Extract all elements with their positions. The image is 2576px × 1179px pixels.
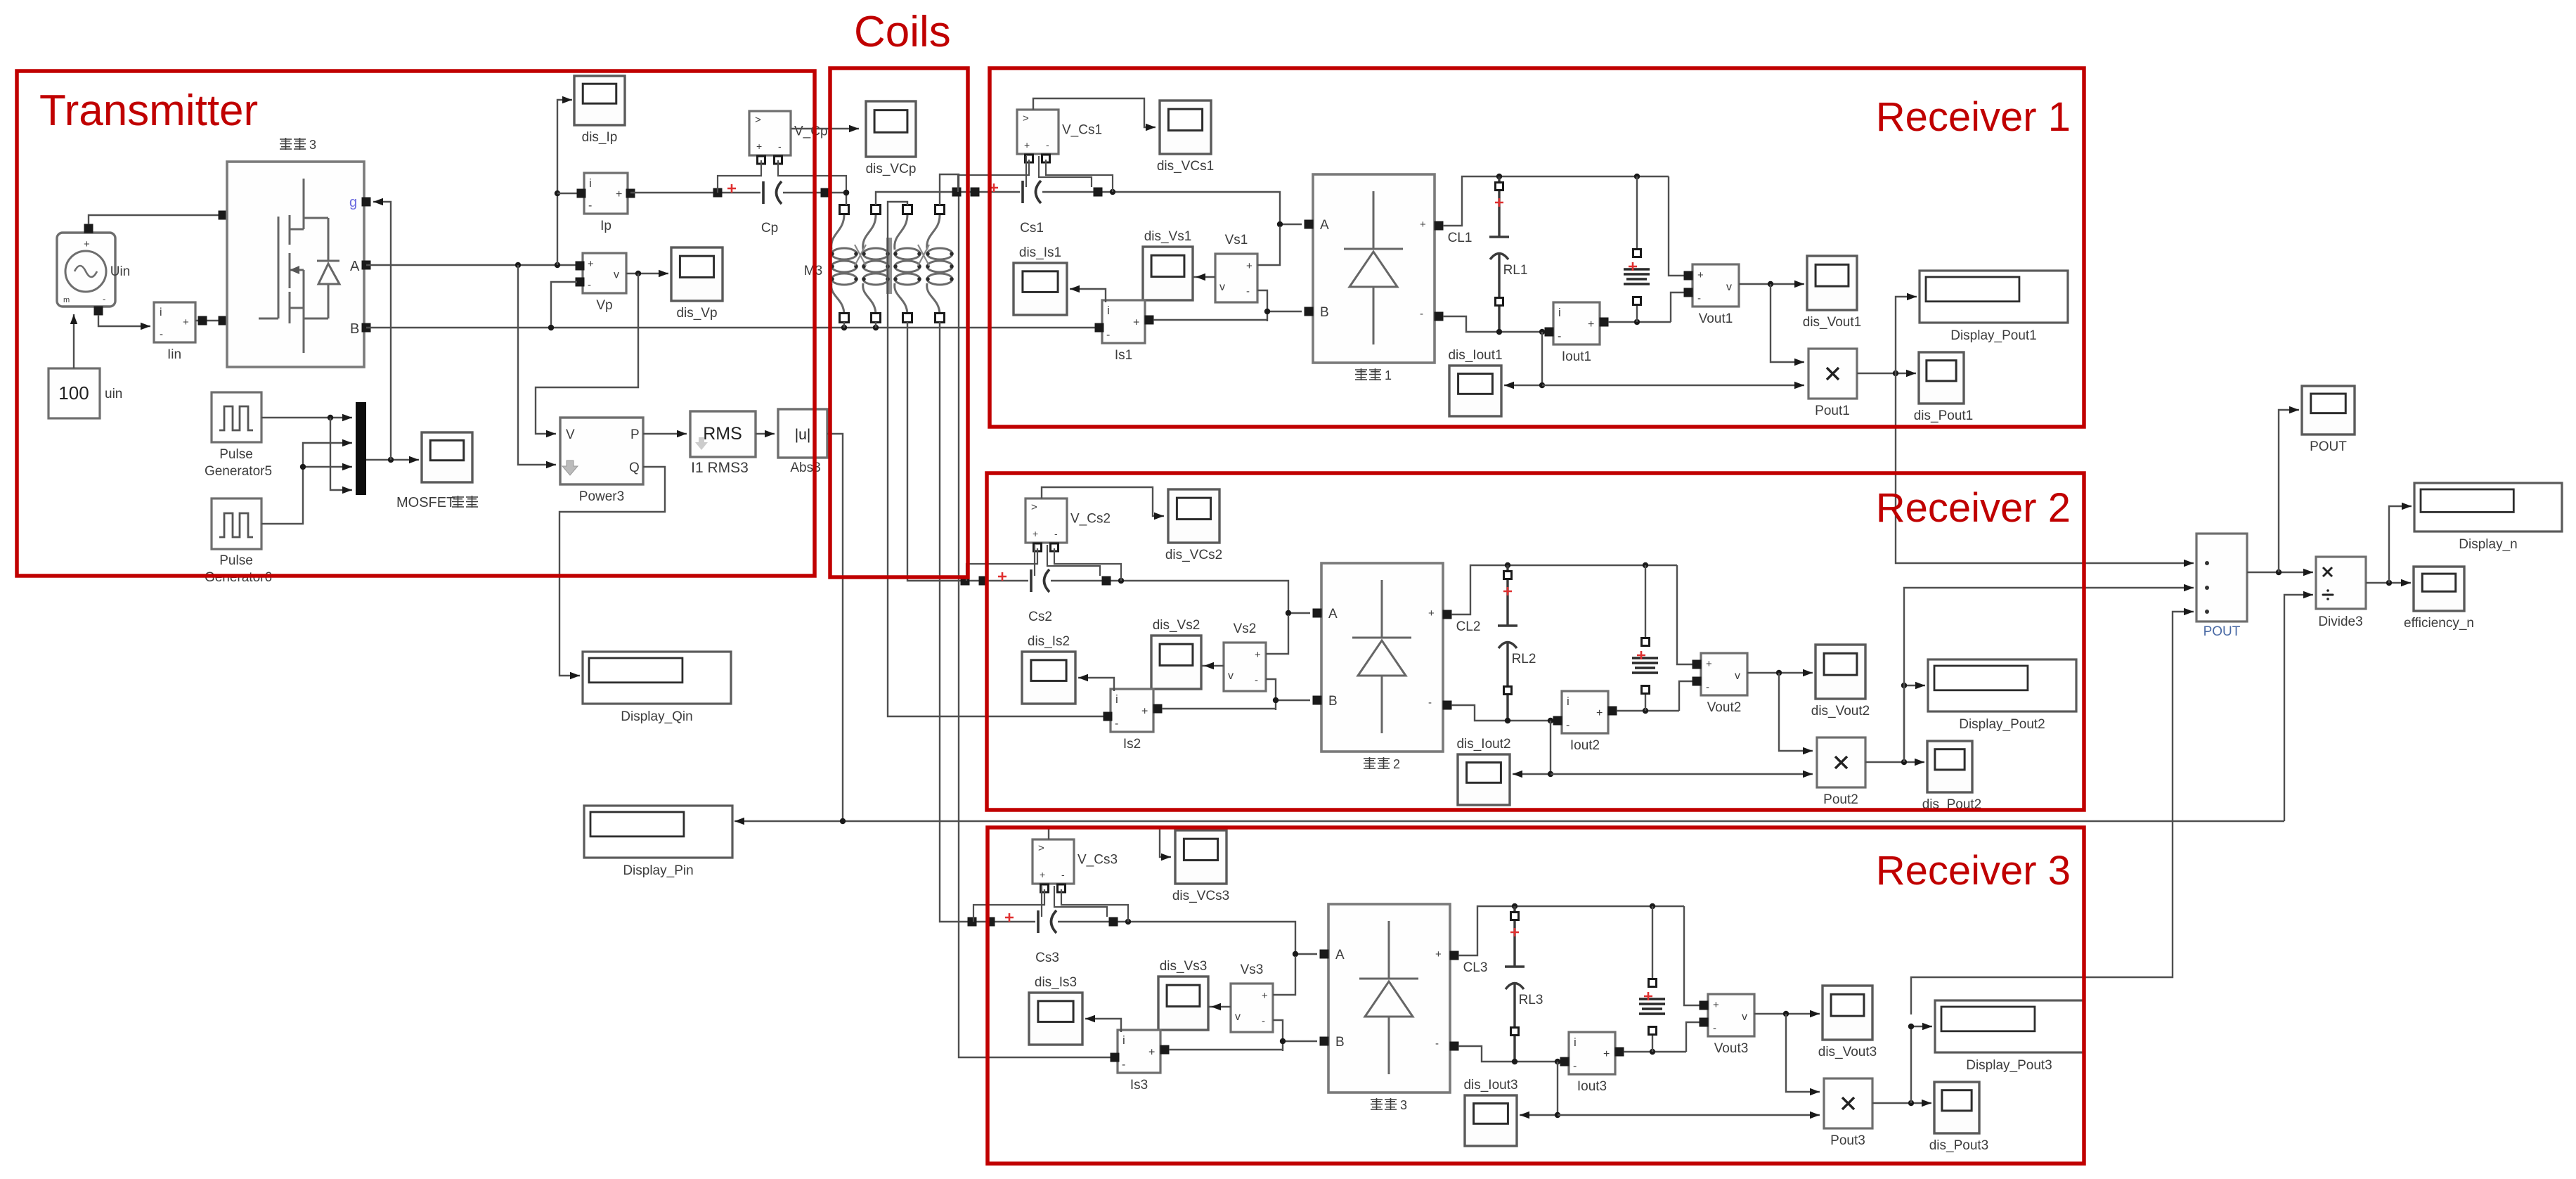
wire Iout3 signal to Pout3 [1558, 1112, 1820, 1119]
svg-text:dis_Iout2: dis_Iout2 [1456, 737, 1510, 752]
wire rectifier - to Iout3 [1458, 1046, 1562, 1064]
scope POUT [2302, 386, 2355, 454]
wire V_Cs2 to dis_VCs2 [1042, 487, 1164, 520]
label port B [350, 321, 359, 337]
sum block POUT [2196, 534, 2247, 621]
pulse generator 5 [212, 392, 261, 442]
svg-text:dis_Is3: dis_Is3 [1035, 975, 1077, 990]
port inverter A [362, 261, 371, 270]
wire bottom rail to Vout3- [1686, 1022, 1702, 1052]
svg-text:Display_Pout1: Display_Pout1 [1950, 328, 2037, 343]
svg-text:+: + [588, 258, 594, 270]
svg-text:Vout1: Vout1 [1699, 311, 1733, 326]
wire Uin+ to inverter in1 [89, 215, 219, 224]
port Vout2 + [1692, 660, 1702, 669]
wire Ip out to Cp capacitor [630, 192, 760, 193]
wire PG5 to mux in1 [261, 414, 352, 421]
scope dis_VCs1 [1157, 101, 1214, 174]
power measurement Power3 [560, 418, 643, 484]
svg-text:POUT: POUT [2203, 624, 2241, 639]
wire Pout1 down to POUT in1 [1896, 373, 2194, 567]
scope dis_Is1 [1014, 245, 1067, 315]
svg-text:dis_Vs3: dis_Vs3 [1160, 959, 1208, 974]
svg-text:Transmitter: Transmitter [39, 86, 258, 135]
svg-text:v: v [1235, 1011, 1241, 1023]
product block Pout2 [1817, 737, 1865, 807]
scope dis_Is3 [1029, 975, 1082, 1045]
svg-text:-: - [1046, 139, 1049, 150]
display Display_Pout1 [1920, 271, 2068, 343]
svg-text:g: g [349, 195, 357, 210]
svg-text:+: + [1262, 990, 1268, 1002]
title Transmitter [39, 86, 258, 135]
port node before Cp [713, 188, 723, 198]
svg-text:B: B [1320, 305, 1329, 320]
scope dis_VCs2 [1165, 489, 1222, 562]
wire coil2 bottom stub [875, 322, 876, 328]
svg-text:+: + [1033, 528, 1038, 539]
coil terminal bottom 3 [903, 314, 912, 323]
port Iout3 out [1615, 1048, 1624, 1057]
voltage meter Vp [583, 253, 626, 313]
port Cs3 node right [1109, 917, 1118, 927]
wire Pout3 to POUT in3 [1911, 608, 2194, 1014]
wire coil3 bottom down to Cs2 (receiver 2) [907, 322, 965, 581]
port node after Cp [821, 188, 830, 198]
svg-text:>: > [755, 114, 761, 126]
current meter Is2 [1111, 689, 1153, 752]
port RL1 top [1633, 250, 1641, 257]
svg-text:2: 2 [1393, 757, 1400, 771]
wire Cs1 to rectifier A [1042, 189, 1302, 227]
voltage measurement V_Cs3 [1033, 839, 1118, 892]
svg-text:v: v [1219, 281, 1225, 293]
svg-text:dis_Vout1: dis_Vout1 [1803, 315, 1861, 330]
wire coil4 bottom down to Cs3 (receiver 3) [940, 322, 972, 922]
port Uin - [94, 307, 103, 316]
wire A tap up to dis_Ip [555, 96, 572, 265]
current meter Is3 [1118, 1030, 1160, 1093]
wire PG5 branch to mux in4 [330, 418, 352, 494]
voltage meter Vout2 [1701, 653, 1747, 715]
wire coil3 top routed down to Is2 (receiver 2 return) [888, 202, 1105, 716]
wire Is3 out to B node [1169, 1049, 1283, 1050]
voltage meter Vout3 [1708, 994, 1754, 1056]
label port A [350, 259, 360, 274]
wire Vs1+ up to A node [1257, 226, 1280, 265]
wire coil1 bottom stub [843, 322, 845, 328]
wire Pout3 to dis_Pout3 [1872, 1100, 1931, 1107]
inverter block (MOSFET bridge) [227, 162, 364, 367]
wire Divide3 out to efficiency_n [2366, 579, 2411, 586]
label rectifier 2 (CJK) [1364, 757, 1400, 771]
wire Is2 to dis_Is2 [1078, 674, 1114, 691]
coil winding 3 [893, 214, 921, 315]
scope MOSFET control [422, 432, 472, 482]
wire V_Cs2 left bypass [966, 548, 1037, 581]
coil winding 2 [862, 215, 890, 315]
wire coil1 top stub [843, 190, 849, 205]
wire Is1 to dis_Is1 [1070, 285, 1106, 302]
svg-text:-: - [1115, 718, 1118, 730]
svg-text:+: + [84, 238, 90, 250]
svg-text:-: - [1122, 1059, 1125, 1071]
scope dis_Vp [671, 247, 723, 321]
wire 100 to Uin m [70, 314, 77, 368]
svg-text:A: A [350, 259, 360, 274]
RMS block [690, 411, 756, 457]
port rectifier B 1 [1305, 307, 1314, 316]
label port g [349, 195, 357, 210]
svg-text:+: + [1024, 139, 1030, 150]
wire Pout2 up to POUT in2 [1904, 584, 2194, 762]
port CL1 top [1496, 183, 1503, 191]
svg-text:-: - [1262, 1015, 1265, 1027]
port Iout2 out [1608, 707, 1617, 716]
svg-text:+: + [1706, 658, 1712, 670]
coil coupling cross 1-2 [855, 245, 866, 266]
svg-text:-: - [1713, 1022, 1716, 1034]
svg-text:i: i [1107, 304, 1110, 317]
port Ip out [626, 189, 635, 198]
port Cs1 node 2 [971, 188, 980, 197]
svg-text:|u|: |u| [795, 427, 811, 443]
svg-text:+: + [1428, 607, 1435, 619]
wire PG6 to mux in2 [261, 439, 352, 524]
wire Vs3+ up to A node [1273, 956, 1295, 995]
coil terminal top 4 [936, 205, 945, 214]
svg-text:+: + [1697, 269, 1704, 281]
port inverter in2 [219, 316, 228, 326]
port CL2 bottom [1504, 687, 1512, 695]
svg-text:dis_Iout1: dis_Iout1 [1448, 348, 1502, 363]
red frame Receiver 3 [988, 827, 2084, 1164]
label CL1 [1448, 231, 1473, 245]
svg-text:Generator5: Generator5 [205, 464, 272, 479]
capacitor Cs2 [1031, 569, 1049, 592]
svg-text:Pulse: Pulse [219, 447, 253, 462]
scope dis_Vs2 [1151, 618, 1201, 689]
label inverter title (CJK) + 3 [280, 138, 316, 152]
coil terminal bottom 4 [936, 314, 945, 323]
port Iout2 in [1553, 716, 1562, 726]
label Uin [110, 264, 131, 279]
wire junction up to Display_Pout3 [1908, 1023, 1932, 1103]
svg-text:-: - [1420, 308, 1423, 320]
svg-text:Coils: Coils [854, 8, 951, 56]
polarity + RL3 [1644, 992, 1652, 1000]
wire Vs1 out to dis_Vs1 [1193, 276, 1215, 278]
polarity + CL1 [1495, 198, 1503, 207]
wire Vs3 out to dis_Vs3 [1208, 1006, 1231, 1007]
voltage measurement V_Cs2 [1025, 498, 1111, 551]
port RL1 bottom [1633, 297, 1641, 305]
wire V_Cp left port bypass [718, 160, 761, 193]
wire V_Cs3 right port over cap [1054, 886, 1107, 917]
svg-text:dis_VCs3: dis_VCs3 [1172, 889, 1229, 903]
wire Vout1 signal to Pout1 [1771, 284, 1804, 366]
svg-text:Vp: Vp [596, 298, 612, 313]
title Receiver 3 [1876, 848, 2071, 894]
label Cp [761, 221, 778, 236]
wire coil2 top to Cs1 line [876, 192, 958, 205]
current meter Ip [584, 173, 628, 233]
wire Vs1- down to B node [1257, 290, 1267, 321]
svg-text:Iin: Iin [167, 347, 181, 362]
svg-text:V: V [566, 427, 575, 442]
port Is2 out [1153, 704, 1163, 714]
wire RMS to Abs3 [756, 430, 775, 437]
svg-text:Display_Qin: Display_Qin [621, 709, 692, 724]
MOSFET symbol inside inverter [259, 179, 328, 353]
svg-text:CL1: CL1 [1448, 231, 1473, 245]
svg-text:-: - [1573, 1060, 1577, 1072]
wire V_Cs3 right bypass [1061, 889, 1128, 922]
svg-text:-: - [588, 200, 592, 212]
coil coupling cross 3-4 [918, 245, 929, 266]
svg-text:-: - [1428, 697, 1432, 709]
wire V_Cp right port bypass [778, 160, 846, 191]
svg-text:RL1: RL1 [1503, 263, 1528, 278]
current meter Iout3 [1569, 1032, 1615, 1094]
scope dis_Vout3 [1818, 986, 1877, 1059]
filter capacitor CL1 [1489, 176, 1509, 332]
svg-text:CL2: CL2 [1456, 619, 1481, 634]
svg-text:Pout3: Pout3 [1830, 1133, 1865, 1148]
svg-text:>: > [1031, 501, 1037, 513]
svg-text:dis_Ip: dis_Ip [582, 130, 618, 145]
svg-text:Is1: Is1 [1115, 348, 1132, 363]
scope dis_Pout3 [1929, 1082, 1989, 1153]
svg-text:+: + [1255, 649, 1261, 661]
label I1 RMS3 [691, 460, 749, 476]
svg-text:Display_Pout2: Display_Pout2 [1959, 717, 2045, 732]
svg-text:1: 1 [1385, 368, 1392, 382]
wire RL2 bottom [1645, 692, 1646, 711]
polarity + Cs2 [998, 572, 1007, 581]
svg-text:uin: uin [105, 387, 122, 401]
svg-text:-: - [1106, 329, 1110, 341]
wire Is1 out to B node [1153, 319, 1267, 321]
svg-text:Receiver 1: Receiver 1 [1876, 94, 2071, 140]
svg-text:POUT: POUT [2310, 439, 2347, 454]
label Pulse Generator5 line1 [219, 447, 253, 462]
svg-text:Display_Pin: Display_Pin [623, 863, 693, 878]
port inverter B [362, 323, 371, 333]
label Power3 [579, 489, 624, 504]
port Vp - [576, 278, 585, 287]
svg-text:V_Cs3: V_Cs3 [1077, 853, 1118, 868]
svg-text:m: m [63, 296, 70, 304]
load branch RL2 [1632, 658, 1658, 673]
port RL3 top [1649, 979, 1657, 987]
svg-text:+: + [1420, 219, 1426, 231]
label rectifier 1 (CJK) [1355, 368, 1392, 382]
title Coils [854, 8, 951, 56]
svg-text:Display_Pout3: Display_Pout3 [1966, 1058, 2052, 1073]
wire A tap down to Power3 I input [518, 265, 556, 468]
svg-text:v: v [1742, 1011, 1747, 1023]
wire B node into rectifier [1280, 1038, 1317, 1044]
svg-text:Power3: Power3 [579, 489, 624, 504]
wire POUT out to scope and Divide3 [2247, 569, 2313, 576]
svg-text:+: + [756, 141, 762, 152]
label CL3 [1463, 960, 1488, 975]
scope dis_Vs1 [1143, 229, 1193, 300]
svg-text:v: v [614, 269, 619, 281]
label MOSFET control (CJK) [396, 495, 478, 510]
label uin [105, 387, 122, 401]
port Vout3 - [1700, 1018, 1709, 1027]
wire top rail to Vout2+ [1677, 565, 1695, 664]
port Cs3 node left [968, 917, 977, 927]
svg-text:Pout2: Pout2 [1823, 792, 1858, 807]
svg-text:Cs1: Cs1 [1020, 221, 1044, 236]
wire Vout2 signal to Pout2 [1779, 673, 1813, 754]
filter capacitor CL3 [1505, 906, 1525, 1062]
polarity + Cs3 [1005, 913, 1014, 922]
svg-text:Is2: Is2 [1123, 737, 1141, 752]
polarity + CL3 [1510, 928, 1519, 936]
port Cs3 node 2 [986, 917, 995, 927]
wire Vout3 signal to Pout3 [1786, 1014, 1820, 1095]
divide block Divide3 [2316, 557, 2366, 609]
svg-text:-: - [588, 279, 591, 291]
wire RL1 bottom [1636, 304, 1638, 322]
svg-text:dis_Pout1: dis_Pout1 [1914, 408, 1974, 423]
svg-text:Receiver 2: Receiver 2 [1876, 485, 2071, 531]
wire B node into rectifier [1273, 697, 1310, 703]
port Cs2 node 2 [979, 576, 988, 586]
svg-text:i: i [1574, 1036, 1577, 1049]
wire Iout3 tap to dis_Iout3 [1520, 1062, 1560, 1119]
wire V_Cs1 to dis_VCs1 [1033, 98, 1156, 131]
wire top rail to Vout1+ [1669, 176, 1687, 276]
svg-text:-: - [1061, 869, 1065, 880]
Abs block Abs3 [778, 409, 827, 458]
wire mux out to scope [366, 456, 419, 463]
product block Pout3 [1824, 1078, 1872, 1148]
wire Iout2 tap to dis_Iout2 [1513, 721, 1553, 778]
svg-text:-: - [103, 294, 105, 304]
svg-text:v: v [1726, 281, 1732, 293]
constant block 100 (uin) [48, 368, 100, 418]
wire tap to Ip in [557, 193, 580, 194]
svg-text:v: v [1228, 670, 1234, 682]
wire V_Cs1 left port down [1025, 156, 1027, 187]
svg-text:Is3: Is3 [1130, 1078, 1148, 1093]
wire Vp out down to Power3 V input [536, 273, 638, 437]
wire RL3 bottom [1652, 1033, 1653, 1052]
wire Vs3- down to B node [1273, 1020, 1283, 1051]
wire Vout1 to dis_Vout1 [1739, 281, 1804, 288]
port RL2 bottom [1642, 686, 1650, 694]
current measurement Iin [154, 302, 195, 342]
wire Pout1 to dis_Pout1 [1857, 370, 1916, 377]
svg-text:V_Cs2: V_Cs2 [1070, 512, 1111, 527]
wire inverter A output line [366, 262, 576, 268]
rectifier bridge block 2 [1321, 563, 1443, 752]
red frame Receiver 1 [990, 68, 2084, 427]
label RL3 [1519, 993, 1543, 1007]
polarity + before Cp [727, 184, 736, 193]
svg-text:3: 3 [1400, 1098, 1407, 1112]
svg-text:RL3: RL3 [1519, 993, 1543, 1007]
port Vout3 + [1700, 1001, 1709, 1010]
wire top rail to Vout3+ [1684, 906, 1702, 1005]
svg-text:dis_Is1: dis_Is1 [1019, 245, 1061, 260]
wire Iout1 signal to Pout1 [1542, 382, 1804, 389]
port rectifier A 2 [1313, 609, 1322, 618]
wire rectifier - to Iout1 [1443, 316, 1546, 335]
scope dis_Iout3 [1463, 1078, 1517, 1146]
voltage meter Vs3 [1231, 962, 1273, 1032]
polarity + CL2 [1503, 587, 1512, 595]
wire V_Cs3 left bypass [973, 889, 1044, 922]
wire V_Cs3 left port down [1041, 886, 1042, 917]
wire rectifier + to top rail 1 [1443, 174, 1669, 226]
svg-text:dis_Vout2: dis_Vout2 [1811, 704, 1870, 719]
svg-text:Iout2: Iout2 [1570, 738, 1600, 753]
freewheel diode inside inverter [317, 218, 339, 318]
capacitor Cs1 [1023, 181, 1041, 203]
load branch RL1 [1624, 269, 1650, 284]
port Is2 in [1103, 712, 1113, 721]
wire Vp- down to B line [551, 282, 577, 325]
svg-text:+: + [1596, 707, 1603, 719]
scope dis_Vs3 [1158, 959, 1208, 1030]
scope dis_Iout2 [1456, 737, 1510, 805]
wire Iout3 out rail [1624, 1049, 1686, 1055]
title Receiver 1 [1876, 94, 2071, 140]
port rectifier + 3 [1450, 951, 1459, 960]
label Abs3 [790, 460, 820, 475]
label Cs2 [1028, 610, 1052, 624]
label Pulse Generator5 line2 [205, 464, 272, 479]
wire rectifier + to top rail 3 [1458, 903, 1684, 955]
port Iout3 in [1560, 1057, 1569, 1067]
red frame Coils [830, 68, 968, 577]
current meter Is1 [1102, 300, 1145, 363]
port inverter in1 [219, 211, 228, 220]
svg-text:dis_Iout3: dis_Iout3 [1463, 1078, 1517, 1093]
wire rectifier + to top rail 2 [1451, 562, 1677, 614]
wire Iout1 out rail [1608, 319, 1671, 325]
capacitor Cs3 [1038, 910, 1056, 933]
svg-text:efficiency_n: efficiency_n [2404, 616, 2474, 631]
voltage measurement V_Cp [749, 111, 828, 164]
svg-text:MOSFET: MOSFET [396, 495, 455, 510]
load branch RL3 [1639, 999, 1665, 1014]
capacitor Cp [763, 181, 782, 204]
scope dis_VCp [866, 101, 917, 176]
port rectifier B 2 [1313, 696, 1322, 705]
port Vout1 - [1684, 288, 1693, 297]
svg-text:i: i [1115, 692, 1118, 706]
svg-text:+: + [1040, 869, 1045, 880]
wire Vs2- down to B node [1266, 679, 1276, 710]
port CL3 bottom [1511, 1028, 1519, 1036]
svg-text:dis_VCs2: dis_VCs2 [1165, 548, 1222, 562]
label Divide3 [2318, 614, 2362, 629]
port rectifier + 1 [1435, 221, 1444, 231]
wire Iout2 out rail [1617, 708, 1679, 714]
wire RL3 top [1652, 906, 1653, 980]
wire Abs3 out down to Pin line [827, 434, 843, 821]
port Cs1 node left [952, 188, 962, 197]
wire rectifier - to Iout2 [1451, 705, 1555, 723]
wire Pout2 to dis_Pout2 [1865, 759, 1924, 766]
